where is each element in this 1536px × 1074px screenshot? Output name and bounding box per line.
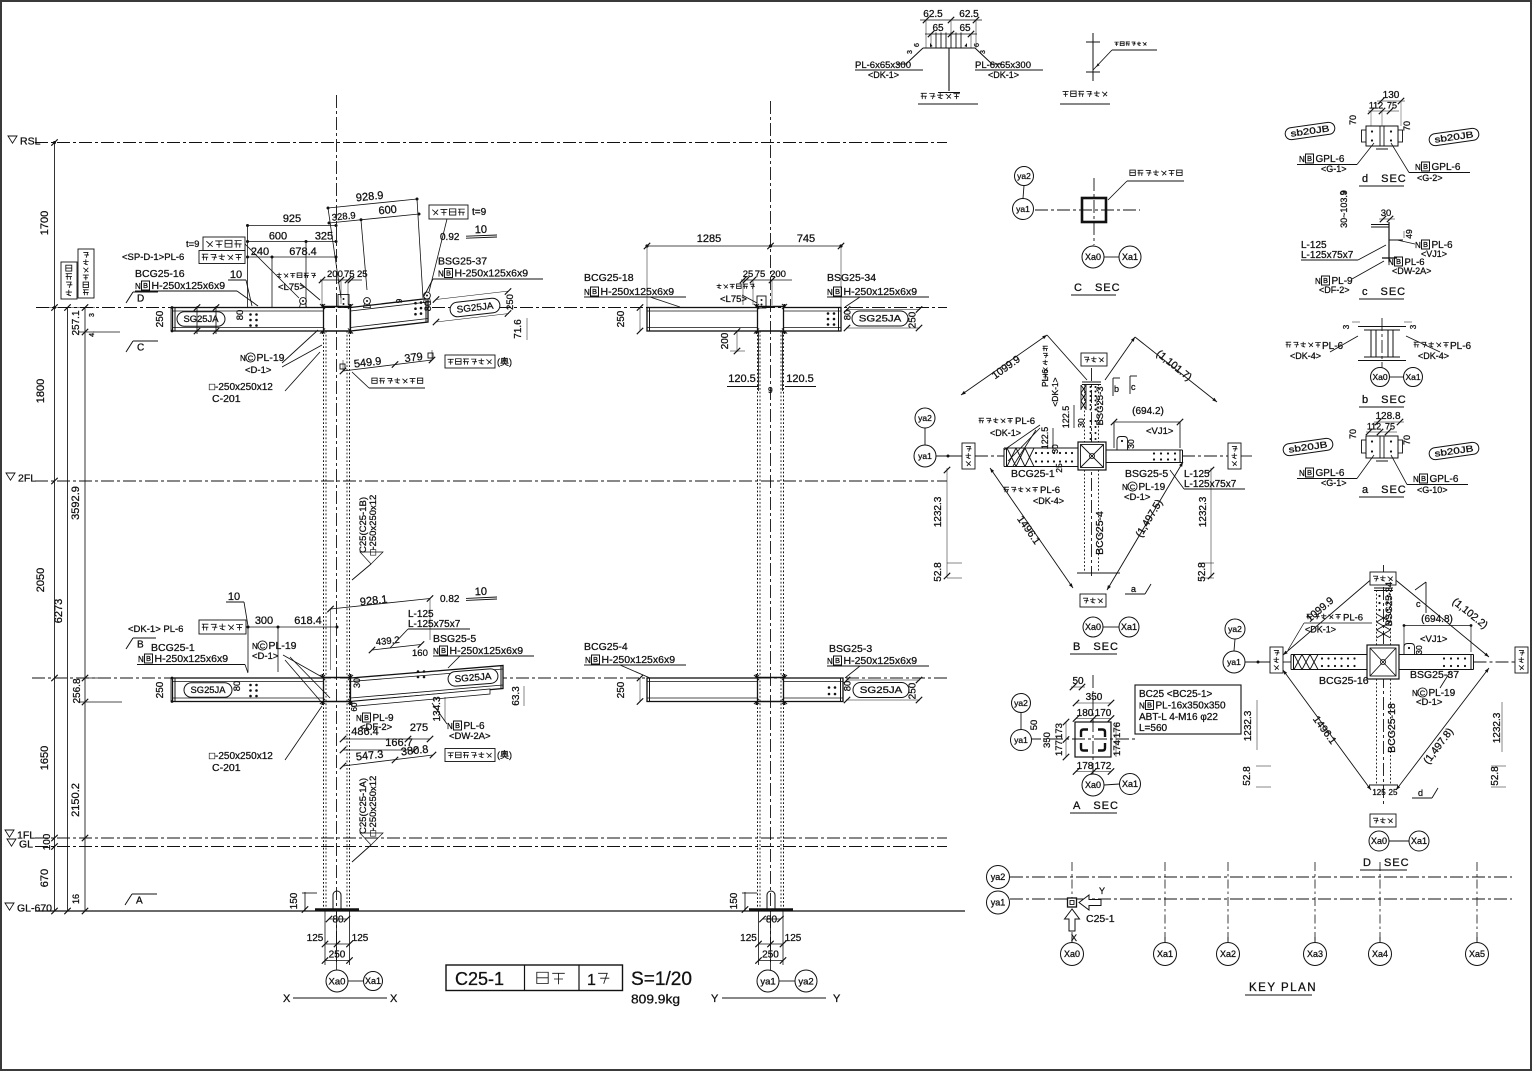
svg-text:PL-6: PL-6 [1343,613,1363,624]
svg-text:256.8: 256.8 [72,678,83,703]
svg-text:30: 30 [1414,645,1424,655]
shichu angle label [277,273,282,278]
svg-text:B: B [1423,162,1428,171]
svg-text:<SP-D-1>PL-6: <SP-D-1>PL-6 [122,252,184,263]
level line 1FL [35,837,947,839]
column C2 centerline [770,101,772,962]
svg-text:B: B [364,713,369,722]
svg-text:125: 125 [352,933,369,944]
svg-text:9: 9 [395,298,404,303]
svg-text:L-125x75x7: L-125x75x7 [1301,250,1354,261]
svg-text:125: 125 [740,933,757,944]
grid bubbles ya1 ya2 at column C2 base [779,980,795,982]
svg-text:a: a [1131,584,1136,594]
ground line GL-670 [35,910,965,912]
boxed vertical labels zencho/daiya [61,262,77,299]
svg-text:1650: 1650 [39,746,51,770]
C SEC bubbles [1015,167,1034,186]
svg-text:GPL-6: GPL-6 [1432,162,1461,173]
svg-text:ya1: ya1 [918,451,932,461]
svg-text:125: 125 [1372,788,1386,797]
column C1 upper joint plates [322,304,324,334]
title block [446,965,623,991]
D SEC horizontal member BCG25-16 left / BSG25-37 right [1291,654,1367,656]
svg-text:<DW-2A>: <DW-2A> [449,731,491,742]
D SEC c flag [1425,582,1427,613]
svg-text:X: X [390,993,398,1005]
B SEC VJ1 piece [1117,437,1128,451]
svg-text:C25-1: C25-1 [1086,913,1115,925]
svg-text:70: 70 [1348,429,1358,439]
beam BSG25-34 right of C2 [784,308,842,332]
svg-text:600: 600 [269,231,287,243]
B SEC center axis boxes [1081,353,1107,366]
svg-text:Y: Y [833,993,841,1005]
svg-text:b SEC: b SEC [1362,394,1407,406]
b SEC bubbles [1371,368,1390,387]
dims above beam2 [248,626,337,628]
svg-text:30: 30 [1050,444,1060,454]
svg-text:250: 250 [616,681,627,698]
svg-text:71.6: 71.6 [513,319,524,339]
svg-text:H-250x125x6x9: H-250x125x6x9 [601,286,675,298]
svg-text:30~103.9: 30~103.9 [1339,190,1349,228]
svg-text:BSG25-34: BSG25-34 [1384,582,1395,626]
svg-text:<G-2>: <G-2> [1417,173,1443,183]
svg-text:52.8: 52.8 [1197,562,1208,582]
svg-text:<DK-4>: <DK-4> [1290,351,1321,361]
A SEC box column corners [1081,730,1088,738]
stamp SG25JA beyond beam1 right (slanted) [449,297,500,317]
svg-text:<DW-2A>: <DW-2A> [1392,266,1431,276]
svg-text:173: 173 [1054,723,1065,739]
svg-text:62.5: 62.5 [923,9,943,20]
svg-text:52.8: 52.8 [1490,766,1501,786]
svg-text:d SEC: d SEC [1362,173,1407,185]
dim 1285 745 [647,245,841,247]
svg-text:1232.3: 1232.3 [933,496,944,527]
svg-text:178: 178 [1077,761,1094,772]
svg-text:Xa1: Xa1 [365,976,381,986]
svg-text:1800: 1800 [35,379,47,403]
svg-text:3: 3 [89,313,96,317]
svg-text:9: 9 [768,385,773,395]
svg-text:2050: 2050 [35,568,47,592]
svg-text:B: B [455,721,460,730]
svg-text:250: 250 [616,310,627,327]
svg-text:□-250x250x12: □-250x250x12 [209,382,273,393]
svg-text:ya1: ya1 [1014,735,1028,745]
svg-text:N: N [433,647,439,656]
B SEC a flag [1125,593,1145,595]
level line beam1 [36,307,947,309]
column C1 base plate [315,908,359,911]
beam left end depth dim 250 [170,308,172,332]
svg-text:C-201: C-201 [212,762,241,774]
key plan Xa bubbles [1071,937,1073,942]
svg-text:240: 240 [251,246,269,258]
svg-text:180: 180 [1077,708,1094,719]
svg-text:SG25JA: SG25JA [860,685,903,696]
svg-text:KEY PLAN: KEY PLAN [1249,982,1317,994]
svg-text:N: N [1122,483,1128,492]
level line beam2 [32,677,947,679]
beam BCG25-1 left of C1 lower [173,678,324,702]
tateire label [372,378,377,383]
svg-text:BSG25-3: BSG25-3 [829,643,872,655]
svg-text:SG25JA: SG25JA [191,685,227,696]
svg-text:N: N [252,642,258,651]
svg-text:379: 379 [404,351,424,365]
svg-text:75: 75 [755,269,766,280]
svg-text:B: B [143,281,148,290]
svg-text:ya2: ya2 [1017,171,1031,181]
svg-text:60: 60 [350,702,359,711]
svg-text:N: N [584,288,590,297]
svg-text:63.3: 63.3 [511,686,522,706]
svg-text:(694.2): (694.2) [1132,406,1164,417]
svg-text:70: 70 [1402,435,1412,445]
svg-text:670: 670 [39,869,51,887]
svg-text:Xa5: Xa5 [1469,949,1485,959]
svg-text:1232.3: 1232.3 [1198,496,1209,527]
D SEC VJ1 piece [1404,644,1415,655]
stamp SG25JA upper-left [177,312,225,327]
grid bubbles Xa0 Xa1 at column C1 base [348,980,364,982]
svg-text:80: 80 [766,915,778,926]
svg-text:B: B [146,654,151,663]
svg-text:3592.9: 3592.9 [70,486,82,520]
level line RSL [35,142,947,144]
svg-text:120.5: 120.5 [786,373,814,385]
svg-text:B: B [1147,701,1152,710]
svg-text:10: 10 [475,586,488,598]
svg-text:(奥): (奥) [497,356,512,367]
gusset plate below [352,689,490,707]
lifting lugs on beam1 [300,304,307,308]
deck plate comb [923,47,975,49]
svg-text:350: 350 [1042,732,1053,748]
svg-text:80: 80 [423,301,434,312]
C SEC crosshair [1013,209,1140,211]
svg-text:122.5: 122.5 [1040,427,1050,450]
svg-text:BSG25-37: BSG25-37 [438,256,487,268]
B SEC horizontal member BCG25-1 left / BSG25-5 right [1004,447,1078,449]
svg-text:25: 25 [357,269,368,280]
svg-text:B: B [446,269,451,278]
svg-text:B: B [137,640,144,651]
svg-text:125: 125 [307,933,324,944]
svg-text:0.92: 0.92 [440,232,460,243]
svg-text:N: N [1415,163,1421,172]
svg-text:50: 50 [1029,720,1040,731]
svg-text:<DK-1>: <DK-1> [990,428,1021,438]
net hook detail [1092,33,1094,81]
svg-text:10: 10 [228,591,240,603]
svg-text:Xa1: Xa1 [1157,949,1173,959]
svg-text:<VJ1>: <VJ1> [1421,249,1447,259]
svg-text:H-250x125x6x9: H-250x125x6x9 [602,654,676,666]
svg-text:ya1: ya1 [1227,657,1241,667]
svg-text:ya1: ya1 [1016,204,1030,214]
stamp SG25JA right of C2 lower [853,683,909,698]
svg-text:GPL-6: GPL-6 [1430,474,1459,485]
B SEC flags b c [1112,378,1114,396]
svg-text:678.4: 678.4 [289,246,317,258]
net hook boxed label lower [445,749,495,762]
key plan ya bubbles [987,866,1010,889]
level line 2FL [35,480,947,482]
svg-text:Xa1: Xa1 [1122,779,1138,789]
svg-text:L-125x75x7: L-125x75x7 [1184,479,1237,490]
B SEC bottom bubbles [1083,617,1103,637]
svg-text:130: 130 [1383,90,1400,101]
svg-text:N: N [1299,469,1305,478]
svg-text:3: 3 [1342,324,1351,329]
svg-text:ya2: ya2 [798,976,813,987]
svg-text:B: B [1396,257,1401,266]
svg-text:L-125x75x7: L-125x75x7 [408,619,461,630]
svg-text:112: 112 [1367,422,1381,432]
svg-text:ya2: ya2 [991,872,1006,882]
svg-text:80: 80 [843,310,854,321]
B SEC center box column with X stiffeners [1078,442,1106,470]
svg-text:H-250x125x6x9: H-250x125x6x9 [844,286,918,298]
svg-text:C: C [248,353,254,362]
svg-text:H-250x125x6x9: H-250x125x6x9 [844,655,918,667]
A SEC crosshair [1092,675,1094,780]
svg-text:Xa1: Xa1 [1122,252,1138,262]
svg-text:B: B [592,287,597,296]
svg-text:2FL: 2FL [18,473,36,485]
svg-text:112: 112 [1369,101,1383,111]
D SEC bottom bubbles [1369,831,1389,851]
b SEC labels [1286,342,1291,347]
beam BCG25-4 left of C2 lower [647,678,758,702]
svg-text:Xa2: Xa2 [1220,949,1236,959]
svg-text:ya2: ya2 [1228,624,1242,634]
svg-text:N: N [827,657,833,666]
svg-text:10: 10 [475,224,488,236]
svg-text:B: B [835,287,840,296]
b SEC detail [1358,326,1406,328]
A SEC outer square [1075,722,1111,757]
svg-text:BCG25-1: BCG25-1 [1011,468,1055,480]
svg-text:□-250x250x12: □-250x250x12 [368,776,379,837]
svg-text:176: 176 [1112,722,1123,738]
svg-text:618.4: 618.4 [294,615,322,627]
svg-text:122.5: 122.5 [1061,406,1071,429]
svg-text:b: b [1114,384,1119,394]
svg-text:X: X [1071,933,1077,943]
svg-text:A SEC: A SEC [1073,800,1119,812]
svg-text:□-250x250x12: □-250x250x12 [209,751,273,762]
svg-text:250: 250 [155,310,166,327]
svg-text:65: 65 [932,23,944,34]
A SEC bubbles [1012,694,1031,713]
svg-text:N: N [138,655,144,664]
svg-text:250: 250 [908,311,919,328]
svg-text:Xa4: Xa4 [1372,949,1388,959]
d SEC sb20JB stamps [1284,122,1335,141]
svg-text:Xa3: Xa3 [1307,949,1323,959]
svg-text:10: 10 [230,269,242,281]
svg-text:1285: 1285 [697,233,721,245]
dim 549.9 379 slanted [343,360,432,371]
svg-text:B: B [1323,276,1328,285]
stamp SG25JA lower-left [184,683,232,698]
svg-text:<DK-1>: <DK-1> [868,70,899,80]
dim chain x54 [54,143,56,912]
svg-text:a SEC: a SEC [1362,484,1407,496]
column C1 lower joint plates [322,674,324,705]
svg-text:N: N [447,722,453,731]
svg-text:30: 30 [1076,418,1086,428]
svg-text:BC25 <BC25-1>: BC25 <BC25-1> [1139,689,1213,700]
svg-text:C25-1: C25-1 [455,969,504,989]
B SEC diamond dim lines [961,335,1047,395]
section flags D C [133,291,158,293]
svg-text:200: 200 [327,269,343,280]
svg-text:PL-19: PL-19 [257,352,285,364]
column C1 centerline [336,95,338,962]
svg-text:<G-1>: <G-1> [1321,164,1347,174]
svg-text:□-250x250x12: □-250x250x12 [368,495,379,556]
svg-text:52.8: 52.8 [1242,766,1253,786]
svg-text:Xa1: Xa1 [1405,372,1420,382]
svg-text:SG25JA: SG25JA [184,314,220,325]
svg-text:BCG25-18: BCG25-18 [1386,703,1398,753]
D SEC axis boxes [1370,572,1396,585]
dim chain x67 total 6273 [67,308,69,912]
svg-text:65: 65 [959,23,971,34]
svg-text:GL-670: GL-670 [17,903,52,915]
svg-text:486.4: 486.4 [351,726,379,738]
a SEC sb20JB stamps [1282,438,1333,457]
svg-text:(694.8): (694.8) [1421,614,1453,625]
svg-text:<DK-1>: <DK-1> [988,70,1019,80]
column C2 base dims [744,892,746,911]
B SEC left bubbles ya2 ya1 [915,408,935,428]
dims above beam1 column C1 [248,225,337,227]
svg-text:Xa0: Xa0 [1064,949,1080,959]
svg-text:L=560: L=560 [1139,723,1168,734]
beam BCG25-18 left of C2 [647,308,758,332]
dim chain x85 [84,308,86,912]
svg-text:BCG25-16: BCG25-16 [1319,675,1369,687]
key plan C25-1 marker [1068,898,1077,907]
bolt dots beam1 left [249,313,252,316]
svg-text:S=1/20: S=1/20 [631,969,692,990]
stamp SG25JA right of C2 [852,311,908,326]
level line GL [35,846,947,848]
svg-text:C-201: C-201 [212,393,241,405]
column C2 lower joint plates [756,674,758,705]
svg-text:250: 250 [505,294,516,310]
svg-text:N: N [438,270,444,279]
svg-text:PL-6: PL-6 [1040,485,1060,496]
svg-text:Xa0: Xa0 [1372,372,1387,382]
svg-text:170: 170 [1095,708,1112,719]
svg-text:<G-10>: <G-10> [1417,485,1448,495]
column C1 body [323,331,325,908]
svg-text:(奥): (奥) [497,749,512,760]
svg-text:N: N [827,288,833,297]
svg-text:X: X [283,993,291,1005]
svg-text:120.5: 120.5 [728,373,756,385]
svg-text:N: N [585,656,591,665]
svg-text:0.82: 0.82 [440,594,460,605]
svg-text:C: C [137,343,144,354]
c SEC angle detail [1388,222,1390,262]
BC25 spec box [1135,685,1241,734]
svg-text:c SEC: c SEC [1362,286,1406,298]
svg-text:<DK-4>: <DK-4> [1033,496,1064,506]
svg-text:PL-6: PL-6 [1450,341,1472,352]
svg-text:A: A [136,896,143,907]
svg-text:70: 70 [1402,121,1412,131]
svg-text:80: 80 [332,915,344,926]
svg-text:ya2: ya2 [918,413,932,423]
svg-text:Xa0: Xa0 [329,976,346,987]
svg-text:6273: 6273 [53,599,65,623]
D SEC left bubbles [1225,619,1245,639]
svg-text:B: B [1307,468,1312,477]
d SEC splice plate [1366,126,1398,146]
svg-text:49: 49 [1404,229,1414,239]
dim 928.1 slanted [331,599,431,610]
svg-text:1: 1 [587,972,596,989]
svg-text:Xa0: Xa0 [1085,252,1101,262]
svg-text:PL-16x350x350: PL-16x350x350 [1156,701,1226,712]
svg-text:172: 172 [1095,761,1112,772]
svg-text:1700: 1700 [39,211,51,235]
svg-text:t=9: t=9 [472,207,487,218]
d SEC GPL labels [1376,145,1388,147]
svg-text:<D-1>: <D-1> [252,651,279,662]
svg-text:H-250x125x6x9: H-250x125x6x9 [455,268,529,280]
C SEC tateire label [1130,170,1135,175]
key plan grid lines [1010,876,1512,878]
svg-text:80: 80 [235,310,246,321]
svg-text:350: 350 [1086,692,1103,703]
svg-text:SG25JA: SG25JA [859,314,902,325]
column C1 base dims [304,892,306,911]
svg-text:100: 100 [42,833,53,850]
svg-text:250: 250 [908,682,919,699]
svg-text:B: B [1307,154,1312,163]
svg-text:62.5: 62.5 [959,9,979,20]
svg-text:N: N [1413,475,1419,484]
svg-text:<D-1>: <D-1> [245,365,272,376]
C SEC column square [1082,198,1106,222]
svg-text:325: 325 [315,231,333,243]
B SEC side dims 1232.3 52.8 [946,468,948,578]
svg-text:RSL: RSL [20,136,41,148]
svg-text:Xa1: Xa1 [1121,622,1137,632]
D SEC vertical member BCG25-18 [1383,565,1385,806]
svg-text:30: 30 [1381,208,1392,219]
svg-text:PL-6: PL-6 [1015,416,1035,427]
svg-text:ya1: ya1 [991,898,1006,908]
svg-text:745: 745 [797,233,815,245]
svg-text:BCG25-4: BCG25-4 [584,641,628,653]
column C1 top bracket (shichu angle) [338,295,349,308]
key plan Y arrow [1079,895,1101,910]
svg-text:80: 80 [232,681,243,692]
section flag A [132,893,157,895]
svg-text:C SEC: C SEC [1074,282,1121,294]
